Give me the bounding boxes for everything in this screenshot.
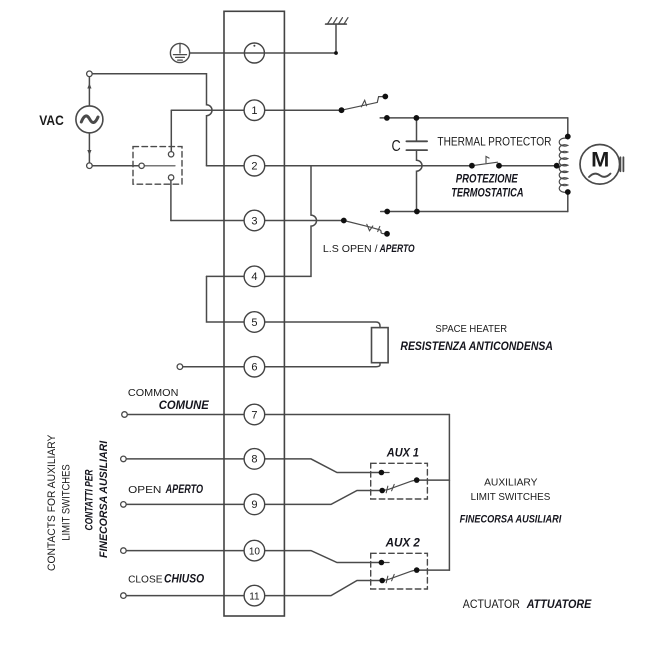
svg-text:ATTUATORE: ATTUATORE [526, 597, 592, 611]
svg-text:CONTATTI PER: CONTATTI PER [84, 470, 96, 531]
svg-text:COMUNE: COMUNE [159, 400, 209, 412]
svg-text:FINECORSA AUSILIARI: FINECORSA AUSILIARI [98, 440, 110, 558]
svg-text:APERTO: APERTO [379, 243, 415, 255]
svg-text:AUX 1: AUX 1 [386, 448, 419, 460]
svg-text:2: 2 [251, 161, 257, 173]
svg-text:CHIUSO: CHIUSO [164, 573, 204, 585]
svg-text:CLOSE: CLOSE [128, 573, 162, 585]
svg-text:11: 11 [249, 591, 260, 602]
svg-text:PROTEZIONE: PROTEZIONE [456, 172, 519, 186]
svg-text:FINECORSA AUSILIARI: FINECORSA AUSILIARI [460, 513, 562, 525]
svg-text:5: 5 [251, 317, 257, 329]
svg-text:TERMOSTATICA: TERMOSTATICA [451, 185, 523, 199]
svg-text:M: M [591, 148, 609, 172]
svg-text:1: 1 [251, 105, 257, 117]
svg-text:AUX 2: AUX 2 [385, 538, 421, 550]
svg-text:LIMIT SWITCHES: LIMIT SWITCHES [471, 491, 551, 503]
svg-text:9: 9 [251, 499, 257, 511]
svg-text:CONTACTS FOR AUXILIARY: CONTACTS FOR AUXILIARY [46, 434, 58, 571]
svg-text:4: 4 [251, 271, 257, 283]
svg-text:7: 7 [251, 409, 257, 421]
svg-text:C: C [392, 138, 401, 155]
svg-text:SPACE HEATER: SPACE HEATER [435, 323, 507, 335]
svg-text:AUXILIARY: AUXILIARY [484, 477, 537, 489]
svg-text:APERTO: APERTO [165, 484, 203, 496]
svg-text:RESISTENZA ANTICONDENSA: RESISTENZA ANTICONDENSA [400, 339, 553, 353]
svg-text:10: 10 [249, 546, 261, 557]
svg-text:OPEN: OPEN [128, 484, 161, 496]
svg-text:3: 3 [251, 215, 257, 227]
svg-text:THERMAL PROTECTOR: THERMAL PROTECTOR [437, 136, 551, 148]
svg-text:L.S OPEN /: L.S OPEN / [323, 243, 378, 255]
svg-text:COMMON: COMMON [128, 387, 178, 399]
svg-text:ACTUATOR: ACTUATOR [463, 599, 520, 611]
svg-text:VAC: VAC [39, 113, 64, 128]
svg-text:6: 6 [251, 362, 257, 374]
svg-text:LIMIT SWITCHES: LIMIT SWITCHES [60, 464, 72, 541]
svg-text:8: 8 [251, 454, 257, 466]
